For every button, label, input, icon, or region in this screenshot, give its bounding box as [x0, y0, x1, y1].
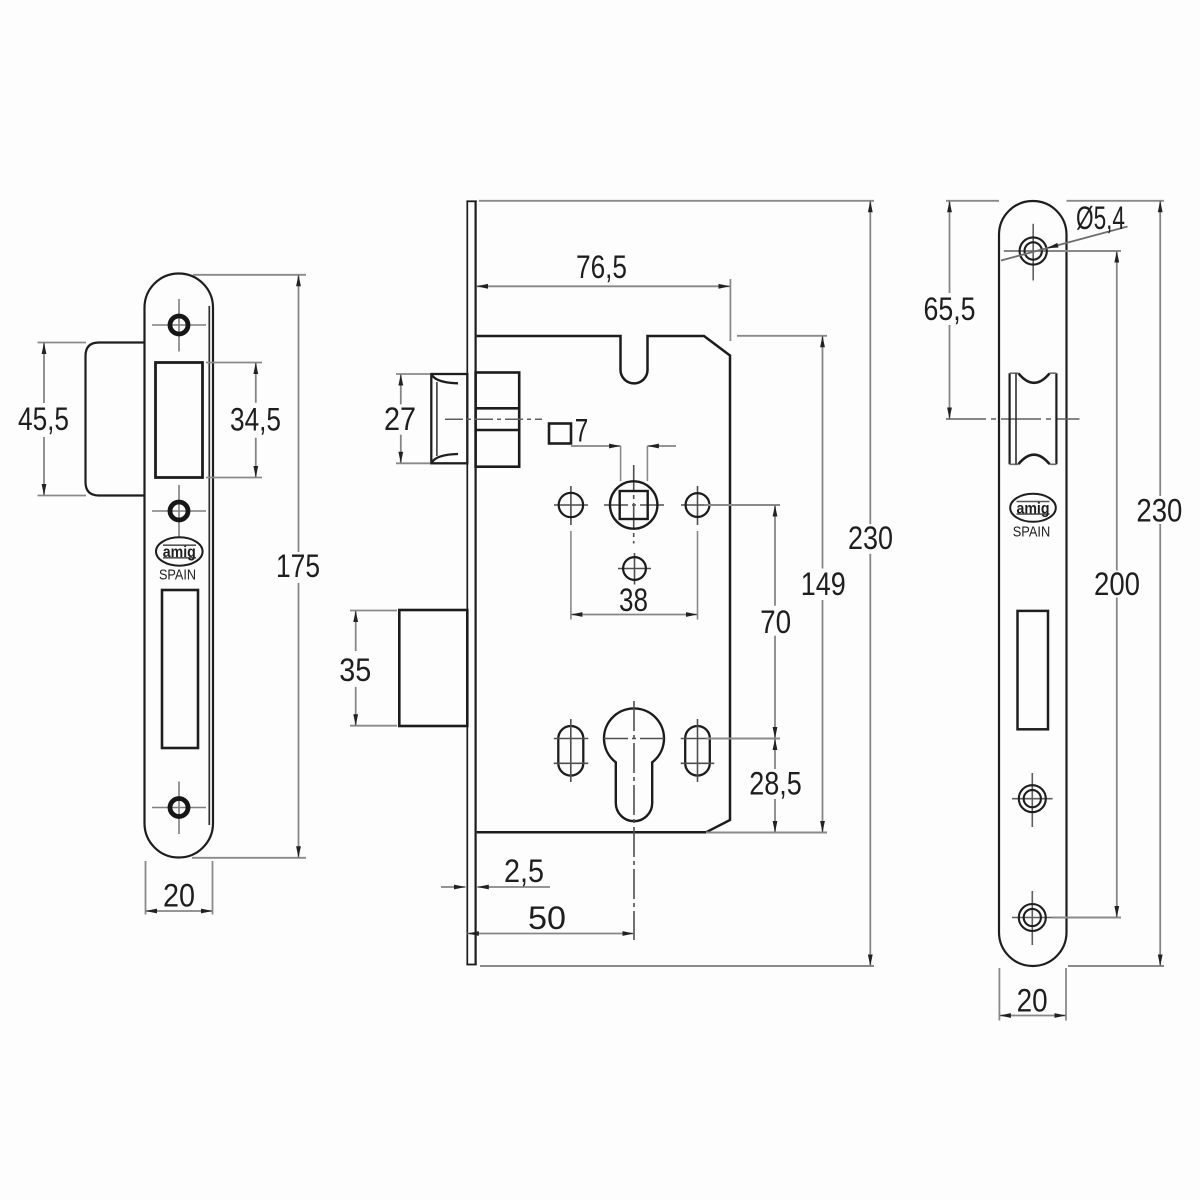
svg-text:149: 149 — [801, 566, 846, 602]
svg-text:50: 50 — [528, 900, 566, 936]
bottom screw hole inner circle right — [1024, 909, 1041, 926]
left oblong hole — [558, 726, 583, 776]
dimension 149 top extension — [737, 335, 827, 337]
svg-text:38: 38 — [619, 582, 648, 618]
euro cylinder profile hole — [604, 708, 664, 821]
dimension 27 extension lines — [396, 374, 430, 463]
dimension 230 top extension right — [1067, 200, 1165, 202]
latch bolt head bottom bevel arc — [432, 454, 458, 462]
latch centerline — [445, 418, 542, 420]
dimension 65,5 top extension — [946, 200, 999, 202]
top screw hole crosshair — [1004, 224, 1063, 281]
svg-text:2,5: 2,5 — [504, 853, 544, 889]
top screw hole inner circle — [1025, 242, 1042, 259]
deadbolt slot right — [1018, 611, 1049, 729]
dimension 70 top extension — [704, 504, 780, 506]
svg-text:65,5: 65,5 — [924, 291, 976, 327]
latch window centerline — [946, 418, 1080, 420]
latch bolt head — [431, 374, 467, 463]
svg-text:200: 200 — [1094, 566, 1140, 602]
dimension 45,5 extension lines — [38, 343, 87, 496]
dimension 35 line — [355, 611, 357, 726]
dimension 70 mid extension — [706, 738, 780, 740]
AMIG logo band top right — [1017, 501, 1050, 503]
left oblong centerlines — [554, 719, 589, 782]
bottom screw hole ring — [170, 799, 188, 817]
dimension 7 extension lines — [621, 446, 648, 481]
dimension 2,5 left arrow line — [441, 886, 466, 888]
svg-text:7: 7 — [575, 413, 589, 449]
latch bolt head top bevel arc — [432, 375, 458, 383]
middle screw hole inner circle right — [1024, 790, 1041, 807]
svg-text:amig: amig — [1017, 500, 1050, 517]
AMIG logo oval right — [1010, 494, 1056, 522]
dimension 28,5 line — [774, 739, 776, 833]
latch body internal line 2 — [476, 429, 520, 432]
dimension 20 line — [146, 910, 213, 912]
svg-text:230: 230 — [848, 520, 893, 556]
latch window roller edge — [1015, 373, 1017, 464]
strike plate outline — [145, 274, 214, 858]
left fixing hole crosshair — [554, 486, 588, 525]
latch window top and bottom edges — [1010, 373, 1057, 464]
latch window bottom concave arc — [1019, 455, 1050, 464]
svg-text:45,5: 45,5 — [18, 401, 69, 437]
dimension 45,5 line — [43, 343, 45, 496]
square drive symbol — [549, 424, 571, 444]
svg-text:SPAIN: SPAIN — [1013, 525, 1051, 541]
dimension 65,5 line — [949, 201, 951, 419]
faceplate strip bottom cap — [466, 964, 476, 966]
dimension 230 line — [869, 201, 871, 966]
dimension 38 line — [571, 614, 698, 616]
svg-text:70: 70 — [760, 604, 791, 640]
right fixing hole — [686, 493, 710, 517]
lock case outline with notch and chamfers — [477, 336, 730, 832]
dimension 230 bottom extension — [480, 965, 874, 967]
right oblong hole — [685, 726, 710, 776]
dimension 20 extension lines — [146, 861, 213, 915]
dimension 230 top extension — [479, 200, 874, 202]
dimension 20 line right — [999, 1015, 1066, 1017]
AMIG logo oval — [156, 537, 203, 565]
dimension 175 extension lines — [192, 275, 306, 858]
dimension 149 bottom extension — [706, 832, 827, 834]
middle screw hole crosshair — [152, 485, 206, 538]
latch window outline — [1010, 373, 1057, 464]
euro cylinder vertical centerline — [633, 701, 635, 940]
dimension 34,5 line — [255, 363, 257, 478]
svg-text:20: 20 — [163, 878, 195, 914]
faceplate strip right edge — [475, 201, 477, 966]
AMIG logo band bottom — [163, 557, 196, 559]
dimension 2,5 right arrow line — [477, 886, 550, 888]
latch window top concave arc — [1019, 373, 1050, 382]
dimension 200 bottom extension — [1053, 917, 1121, 919]
top screw hole ring — [170, 316, 188, 334]
svg-text:230: 230 — [1136, 492, 1182, 528]
center fixing hole — [623, 557, 646, 580]
top screw hole crosshair — [152, 299, 206, 352]
svg-text:27: 27 — [384, 401, 416, 437]
center fixing hole crosshair — [618, 553, 651, 585]
plate folded right edge line — [208, 306, 210, 825]
bent lip tab — [86, 343, 146, 496]
latch body rectangle — [476, 373, 520, 467]
svg-text:Ø5,4: Ø5,4 — [1076, 200, 1125, 236]
middle screw hole ring — [170, 502, 188, 520]
svg-text:28,5: 28,5 — [749, 765, 802, 801]
dimension 35 extension lines — [350, 611, 397, 726]
dimension 149 line — [822, 336, 824, 833]
dimension 34,5 extension lines — [206, 363, 262, 478]
svg-text:34,5: 34,5 — [230, 402, 281, 438]
right oblong centerlines — [681, 719, 715, 782]
dimension 38 extension lines — [571, 531, 698, 620]
AMIG logo band bottom right — [1017, 513, 1050, 515]
top screw hole outer circle — [1020, 237, 1047, 264]
dimension 27 line — [400, 374, 402, 463]
dimension 70 line — [774, 505, 776, 739]
svg-text:76,5: 76,5 — [576, 249, 627, 285]
faceplate strip left edge — [466, 201, 468, 966]
middle screw hole crosshair right — [1012, 773, 1053, 827]
svg-text:175: 175 — [276, 548, 320, 584]
dimension 7 line with arrows — [571, 445, 676, 447]
bottom screw hole crosshair right — [1012, 891, 1053, 945]
latch opening rectangle — [156, 363, 203, 478]
deadbolt rectangle — [399, 610, 467, 726]
latch bolt head bevel line — [436, 382, 438, 456]
AMIG logo band top — [163, 544, 196, 546]
svg-text:35: 35 — [339, 652, 371, 688]
follower square hole — [620, 491, 648, 519]
dimension 175 line — [298, 275, 300, 858]
follower circle — [610, 481, 657, 528]
svg-text:SPAIN: SPAIN — [159, 568, 196, 584]
faceplate strip top cap — [466, 200, 476, 202]
left fixing hole — [559, 493, 583, 517]
dimension 50 line — [467, 933, 634, 935]
diameter 5,4 leader line — [1001, 227, 1128, 261]
dimension 76,5 line — [477, 285, 731, 287]
dimension 200 line — [1116, 251, 1118, 918]
bottom screw hole outer circle right — [1019, 904, 1046, 931]
dimension 76,5 right extension — [729, 279, 731, 341]
dimension 200 top extension — [1063, 250, 1122, 252]
svg-text:amig: amig — [163, 544, 196, 561]
deadbolt slot rectangle — [162, 590, 198, 748]
follower centerlines — [604, 465, 666, 544]
svg-text:20: 20 — [1017, 983, 1048, 1019]
middle screw hole outer circle right — [1019, 785, 1046, 812]
dimension 230 bottom extension right — [1068, 965, 1164, 967]
right fixing hole crosshair — [681, 486, 714, 525]
faceplate outline — [999, 201, 1067, 966]
dimension 230 line right — [1159, 201, 1161, 966]
dimension 20 extension lines right — [999, 968, 1066, 1021]
latch body internal line 1 — [476, 407, 520, 410]
bottom screw hole crosshair — [152, 782, 206, 835]
euro cylinder horizontal centerline — [604, 738, 664, 740]
